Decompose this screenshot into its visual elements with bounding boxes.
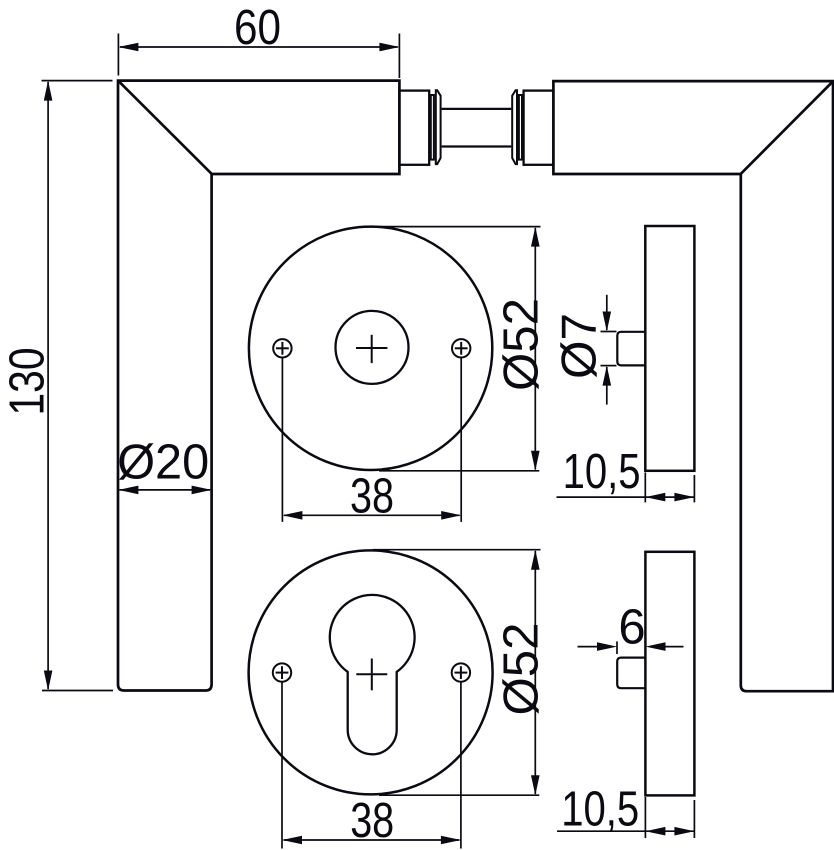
dimension 60 — [118, 34, 399, 79]
lever handle left (front view L-shape) — [118, 81, 399, 691]
dimension D52 top — [373, 227, 541, 471]
side view stub bottom (cylinder boss) — [617, 658, 645, 689]
dimension 6 — [578, 641, 684, 654]
svg-text:Ø52: Ø52 — [495, 623, 549, 716]
dimension 38 bottom — [282, 682, 461, 849]
dimension 10,5 top — [557, 473, 695, 503]
spindle bar — [442, 109, 512, 147]
lever handle left bend diagonal — [119, 81, 212, 174]
right handle neck collar — [524, 91, 554, 165]
lever handle right bend diagonal — [741, 82, 833, 174]
svg-text:130: 130 — [1, 348, 55, 416]
dimension 130 — [42, 81, 114, 691]
rosette top screw right — [452, 339, 470, 357]
rosette bottom screw left — [273, 663, 291, 681]
svg-text:Ø52: Ø52 — [495, 298, 549, 391]
rosette top (round escutcheon, front view) — [249, 227, 492, 470]
side view stub top (spindle boss) — [617, 332, 645, 366]
right washer strip — [519, 95, 522, 160]
svg-text:6: 6 — [618, 601, 645, 655]
side view plate top — [645, 226, 694, 471]
svg-text:38: 38 — [350, 794, 394, 848]
svg-text:10,5: 10,5 — [561, 783, 639, 837]
rosette top centre cross — [356, 335, 387, 363]
dimension D7 — [601, 295, 617, 405]
left washer strip — [431, 95, 434, 160]
left handle neck collar — [399, 91, 429, 165]
lever handle right (front view L-shape, clipped at right edge) — [553, 81, 833, 691]
rosette bottom centre cross — [356, 659, 387, 691]
PZ keyhole cutout — [330, 595, 415, 754]
dimension D20 — [118, 486, 211, 495]
svg-text:38: 38 — [350, 470, 394, 524]
rosette top screw left — [273, 339, 291, 357]
right chamfered ring — [512, 90, 517, 164]
side view plate bottom — [645, 552, 694, 796]
svg-text:60: 60 — [234, 1, 281, 55]
svg-text:Ø7: Ø7 — [553, 313, 607, 379]
dimension D52 bottom — [373, 550, 541, 796]
rosette bottom (PZ escutcheon, front view) — [249, 550, 493, 794]
svg-text:Ø20: Ø20 — [117, 435, 209, 489]
dimension 38 top — [282, 358, 461, 522]
rosette top spindle hole — [336, 311, 409, 384]
rosette bottom screw right — [452, 663, 470, 681]
dimension 10,5 bottom — [557, 797, 694, 838]
left chamfered ring — [436, 90, 441, 164]
svg-text:10,5: 10,5 — [563, 445, 641, 499]
